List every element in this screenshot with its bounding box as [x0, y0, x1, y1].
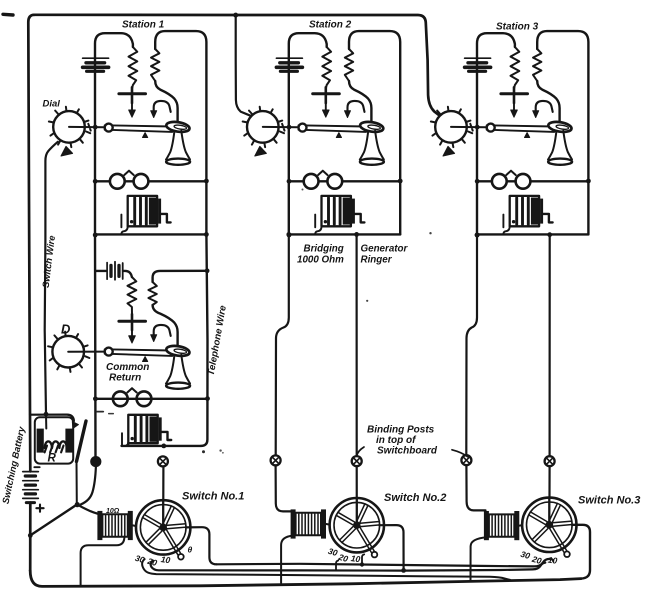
- resistor (induction coil primary): [322, 47, 331, 89]
- hook lever (tapered bar): [105, 125, 173, 132]
- svg-text:Dial: Dial: [43, 99, 61, 110]
- contact stub wheel 2 from bus L2: [336, 561, 338, 571]
- corner artifact mark: [3, 13, 13, 17]
- wire station 3 lower left vertical with jog: [466, 234, 477, 455]
- junction dot bridging feed station 2: [354, 232, 359, 237]
- text labels group: [1, 20, 641, 507]
- dial: [243, 107, 299, 147]
- wire coil 1 ground to bottom border: [81, 537, 125, 586]
- coil L1 (switch magnet 1): [97, 511, 132, 540]
- svg-text:Ringer: Ringer: [361, 255, 393, 266]
- junction dot bridging feed station 3: [547, 232, 552, 237]
- wire post 4 to wheel 2 hub: [356, 466, 358, 525]
- ringer gong left: [492, 174, 507, 189]
- label contacts wheel 2: [327, 546, 361, 565]
- wire secondary to receiver: [349, 81, 371, 122]
- wire post 2 to wheel 1 hub: [162, 467, 164, 528]
- transmitter cross symbol: [501, 87, 528, 117]
- svg-text:Switch No.2: Switch No.2: [384, 492, 446, 504]
- dial D: [48, 332, 105, 372]
- receiver horn: [548, 131, 572, 165]
- wire station left vertical + left hump: [289, 33, 327, 234]
- wire feed to dial 2: [236, 15, 252, 116]
- wire battery diagonal to junction blob: [30, 505, 76, 535]
- svg-text:D: D: [61, 322, 71, 337]
- wire post 5 to coil 3: [466, 465, 485, 510]
- ringer lead stub (common return): [121, 433, 123, 446]
- wire common-return right vertical (telephone wire): [201, 234, 208, 446]
- scan speck group: [96, 189, 432, 454]
- battery B (local): [276, 58, 302, 71]
- svg-text:10Ω: 10Ω: [106, 508, 120, 515]
- svg-text:Switchboard: Switchboard: [377, 446, 438, 457]
- battery B (local): [465, 58, 491, 71]
- receiver horn: [360, 131, 384, 165]
- wire bell line: [289, 180, 400, 182]
- junction dot bottom left: [475, 233, 480, 238]
- wire station 2 lower left vertical with jog: [276, 234, 289, 456]
- svg-text:Switch No.3: Switch No.3: [578, 495, 640, 507]
- junction dot bottom left: [93, 233, 98, 238]
- receiver earpiece: [166, 120, 191, 133]
- relay R outline box: [35, 417, 73, 463]
- receiver horn: [166, 131, 190, 165]
- relay coil end plate right: [65, 429, 72, 453]
- wire common-return left vertical: [94, 234, 97, 456]
- ringer armature (common return): [159, 417, 172, 440]
- wire bottom (common return): [122, 443, 202, 446]
- wire bell line: [95, 180, 206, 182]
- junction dot bell wire left: [287, 179, 292, 184]
- receiver earpiece (common return): [166, 344, 191, 357]
- lever pivot circle (common return): [105, 348, 113, 356]
- lever contact up-arrow: [143, 133, 148, 138]
- wire bell line: [477, 180, 588, 182]
- dial: [431, 107, 487, 147]
- wire wheel 1 to bus L1: [186, 527, 217, 564]
- junction dot dial/vertical: [287, 125, 292, 130]
- coil L2 (switch magnet 2): [291, 509, 326, 538]
- battery B (common return): [107, 262, 123, 280]
- lever pivot circle: [105, 124, 113, 132]
- svg-text:θ: θ: [188, 545, 193, 555]
- wire bus L2: [151, 561, 546, 571]
- transmitter cross symbol (common return): [119, 314, 146, 343]
- hook lever (common return): [105, 349, 173, 356]
- svg-text:Return: Return: [109, 372, 141, 383]
- wire station bottom: [95, 233, 206, 235]
- svg-text:10: 10: [160, 554, 171, 565]
- wire secondary to receiver: [537, 81, 559, 122]
- lower vertical jog station 2 to binding post 3: [276, 232, 552, 456]
- junction dot stub on bus L1: [360, 562, 364, 566]
- ringer gong right: [134, 174, 149, 189]
- resistor (induction coil secondary): [533, 49, 541, 81]
- junction dot battery diagonal: [28, 533, 33, 538]
- wire switch wire into relay: [45, 414, 47, 428]
- wheel switch no.1: [136, 500, 190, 559]
- relay coil winding lower ticks: [45, 446, 64, 453]
- wire bridging feed station 3 (to post 6): [548, 235, 550, 457]
- ringer coil box: [322, 196, 351, 226]
- ringer clapper chevron: [318, 171, 327, 175]
- svg-text:1000 Ohm: 1000 Ohm: [297, 255, 344, 266]
- junction dot station 2 bottom left: [286, 232, 291, 237]
- ringer clapper chevron (common return): [127, 388, 136, 392]
- battery B (local): [83, 58, 109, 71]
- wire post 6 to wheel 3 hub: [548, 466, 550, 525]
- wire coil 2 to wheel 2: [326, 523, 330, 526]
- hook-switch arrow: [345, 101, 365, 118]
- wire junction blob to coil 1: [77, 505, 98, 514]
- binding post 2: [158, 456, 168, 466]
- ringer coil box: [128, 196, 157, 226]
- binding post 4: [352, 456, 362, 466]
- junction dot bell wire left: [475, 179, 480, 184]
- label leader right: [452, 450, 468, 457]
- coil L3 (switch magnet 3): [484, 511, 519, 540]
- wire secondary to receiver: [155, 81, 177, 122]
- label contacts wheel 1: [134, 545, 193, 569]
- junction dot dial/vertical: [93, 125, 98, 130]
- wire bus L1: [217, 559, 554, 567]
- wire bottom border (battery bus): [30, 571, 581, 587]
- wheel switch no.2: [330, 498, 384, 557]
- lever contact up-arrow: [525, 133, 530, 138]
- wire station bottom: [477, 233, 588, 235]
- wire switch wire (dial 1 to relay): [45, 142, 58, 414]
- transmitter cross symbol: [119, 87, 146, 117]
- lever pivot circle: [299, 124, 307, 132]
- wire left border: [28, 15, 34, 472]
- lever contact up-arrow: [336, 133, 341, 138]
- battery plus mark: [36, 505, 43, 512]
- ringer clapper chevron: [124, 171, 133, 175]
- svg-text:Switch No.1: Switch No.1: [182, 491, 244, 503]
- wire left border lower (below switching battery): [29, 503, 32, 571]
- dial finger stop triangle: [255, 146, 267, 156]
- transmitter cross symbol: [313, 87, 340, 117]
- lever pivot circle: [487, 124, 495, 132]
- junction dot right vertical top wire: [205, 268, 210, 273]
- ringer lead stub: [502, 215, 504, 228]
- contact stub wheel 2 from bus L1: [362, 554, 364, 564]
- junction dot bottom wire (common return, wheel feed): [161, 444, 166, 449]
- relay coil winding loops: [45, 441, 67, 448]
- ringer armature: [158, 199, 171, 224]
- junction dot wheel 2 wire on bus L2: [401, 568, 406, 573]
- ringer gong left (common return): [113, 391, 128, 406]
- ringer armature: [540, 199, 553, 224]
- ringer lead stub: [120, 215, 122, 228]
- wire top border (switch-wire bus): [34, 15, 440, 116]
- ringer lead hook to bottom wire: [121, 226, 127, 234]
- hook-switch arrow (common return): [151, 325, 171, 342]
- wire bus L3: [142, 559, 510, 580]
- ringer gong left: [110, 174, 125, 189]
- ringer lead stub: [314, 215, 316, 228]
- label contacts wheel 3: [519, 549, 558, 566]
- wire secondary to receiver (common return): [153, 305, 178, 346]
- wire bridging feed station 2 (to post 4): [356, 234, 358, 456]
- hook lever (tapered bar): [299, 125, 367, 132]
- relay armature lever: [77, 421, 87, 462]
- station 2 group: [243, 31, 403, 237]
- ringer gong right (common return): [137, 391, 152, 406]
- switching battery plates: [23, 472, 39, 503]
- binding post 6: [545, 456, 555, 466]
- wire station bottom: [289, 233, 400, 235]
- common return station group: [48, 232, 210, 457]
- ringer armature: [352, 199, 365, 224]
- hook lever (tapered bar): [487, 125, 555, 132]
- label leader left: [357, 447, 364, 456]
- junction dot top border / dial-2 feed: [233, 13, 238, 18]
- binding post 5: [461, 455, 471, 465]
- wire right hump + station right vertical: [537, 31, 588, 234]
- receiver horn (common return): [166, 355, 190, 389]
- junction dot bell wire right (common return): [205, 396, 210, 401]
- svg-text:Generator: Generator: [361, 244, 409, 255]
- wire coil 1 to wheel 1: [133, 524, 136, 527]
- dial: [49, 107, 105, 147]
- resistor (induction coil primary): [511, 47, 520, 89]
- lever contact up-arrow (common return): [143, 357, 148, 362]
- ringer coil box (common return): [128, 415, 157, 443]
- ringer clapper chevron: [506, 171, 515, 175]
- ringer gong left: [304, 174, 319, 189]
- hook-switch arrow: [151, 101, 171, 118]
- junction dot bell wire right: [204, 179, 209, 184]
- resistor (induction coil secondary): [151, 49, 159, 81]
- wire coil 3 ground to bottom border: [471, 537, 487, 581]
- relay armature contact triangle: [72, 422, 78, 429]
- wire post 3 to coil 2: [276, 465, 292, 511]
- svg-text:Station 1: Station 1: [122, 20, 165, 31]
- wire station left vertical + left hump: [477, 33, 515, 234]
- binding post 3: [271, 455, 281, 465]
- resistor (induction coil secondary): [345, 49, 353, 81]
- junction dot station 3 bottom left: [475, 233, 480, 238]
- relay coil end plate left: [37, 429, 44, 453]
- switches group: coils, wheels, bus wires: [30, 498, 590, 587]
- receiver earpiece: [359, 120, 384, 133]
- ringer lead hook to bottom wire: [503, 226, 509, 234]
- resistor (secondary, common return): [148, 282, 156, 305]
- svg-text:Binding Posts: Binding Posts: [367, 425, 435, 436]
- svg-text:in top of: in top of: [376, 435, 417, 446]
- ringer lead hook to bottom wire: [315, 226, 321, 234]
- station 1 group: [49, 31, 209, 237]
- wire station left vertical + left hump: [95, 33, 133, 234]
- battery minus mark: [34, 466, 39, 468]
- junction dot bell wire right: [398, 179, 403, 184]
- junction dot bell wire left: [93, 179, 98, 184]
- wheel switch no.3: [522, 498, 576, 557]
- receiver earpiece: [548, 120, 573, 133]
- junction dot switch wire / relay feed: [44, 412, 49, 417]
- hook-switch arrow: [533, 101, 553, 118]
- wire armature to junction blob: [76, 462, 78, 504]
- dial finger stop triangle: [61, 146, 73, 156]
- wire battery feed: [95, 271, 132, 277]
- wire coil 2 ground to bottom border: [281, 536, 292, 583]
- junction dot bell wire right: [586, 179, 591, 184]
- wire secondary top to right vertical: [153, 271, 207, 282]
- svg-text:Station 3: Station 3: [496, 22, 539, 33]
- ringer gong right: [327, 174, 342, 189]
- ringer coil box: [510, 196, 539, 226]
- junction dot dial/vertical: [475, 125, 480, 130]
- wire post 1 feed lower: [81, 467, 96, 505]
- binding post 1 (solid): [90, 456, 101, 467]
- svg-text:Station 2: Station 2: [309, 20, 352, 31]
- wire right hump + station right vertical: [155, 31, 206, 234]
- dial finger stop triangle: [443, 146, 455, 156]
- resistor (primary, common return): [128, 277, 137, 314]
- wire right hump + station right vertical: [349, 31, 400, 234]
- station 3 group: [431, 31, 591, 237]
- junction dot bell wire left (common return): [93, 396, 98, 401]
- resistor (induction coil primary): [129, 47, 138, 89]
- wire coil 3 to wheel 3: [519, 524, 522, 526]
- junction blob node: [75, 502, 80, 507]
- wire wheel 3 to bottom border: [572, 525, 590, 579]
- wire relay top feed: [30, 415, 74, 421]
- junction dot station1 bottom right: [204, 232, 209, 237]
- svg-text:Bridging: Bridging: [304, 244, 344, 255]
- svg-text:R: R: [48, 453, 57, 465]
- binding posts group: [81, 425, 555, 528]
- ringer gong right: [516, 174, 531, 189]
- svg-text:10: 10: [350, 553, 361, 564]
- junction dot bottom left: [287, 233, 292, 238]
- wire bell line (common return): [95, 398, 207, 400]
- wire wheel 2 to bus L2: [379, 525, 403, 570]
- relay and switching battery group: [23, 412, 99, 538]
